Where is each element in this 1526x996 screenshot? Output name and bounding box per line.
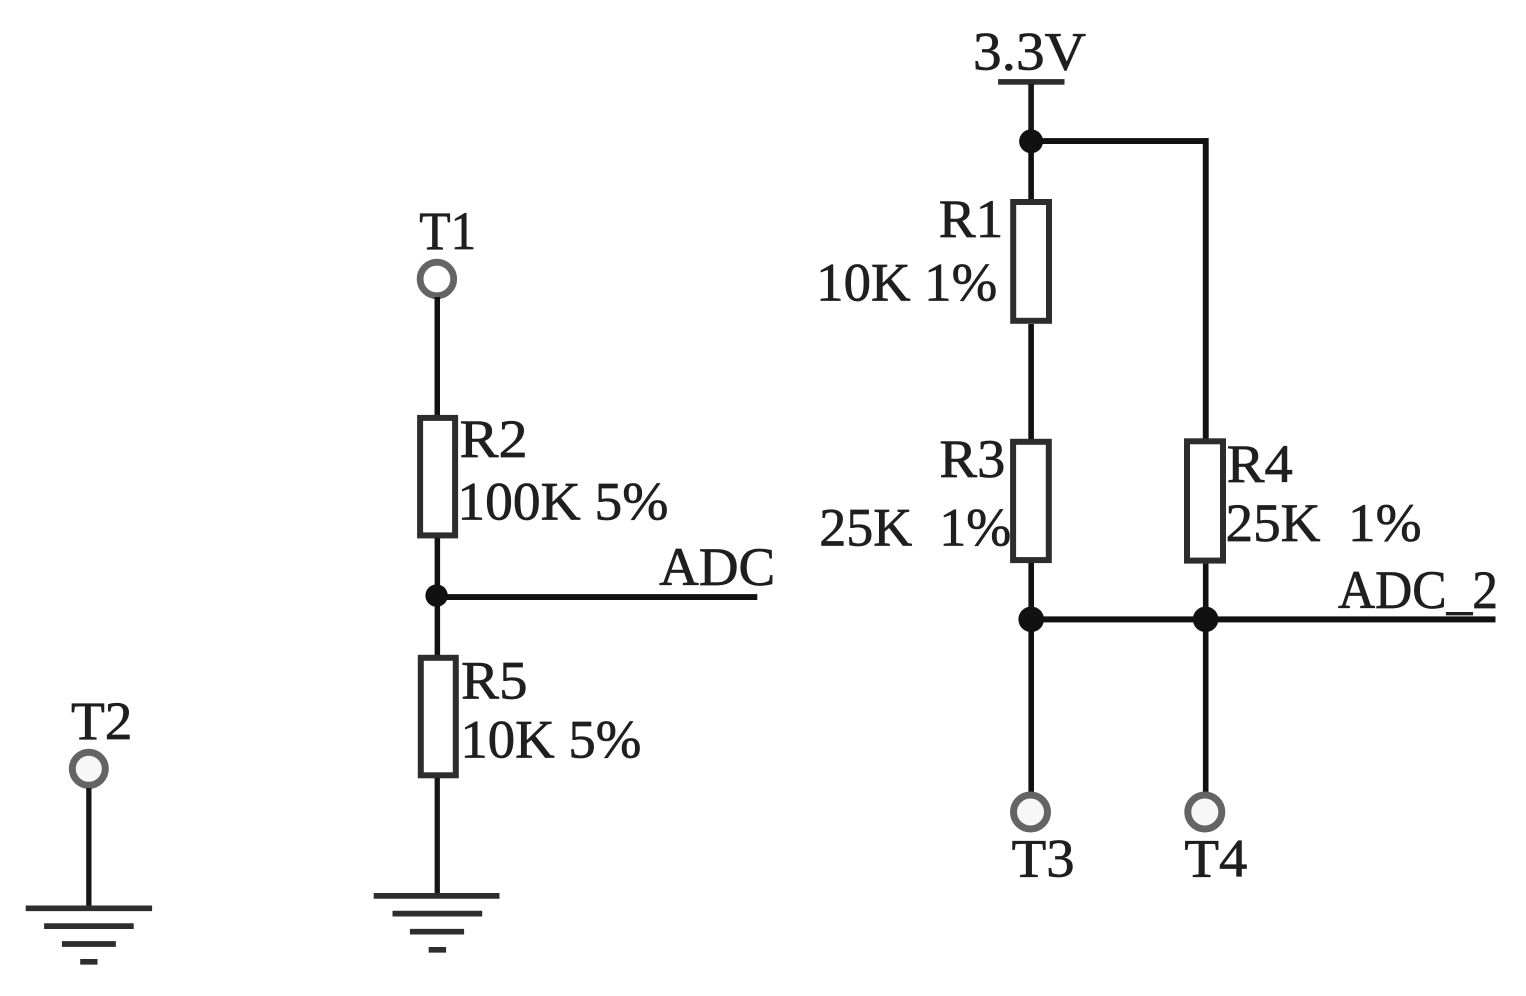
terminal T3 bbox=[1014, 795, 1048, 829]
ground (left) bbox=[26, 908, 152, 962]
svg-text:25K 1%: 25K 1% bbox=[1226, 493, 1422, 553]
svg-text:R3: R3 bbox=[939, 429, 1005, 489]
svg-text:3.3V: 3.3V bbox=[973, 21, 1086, 81]
wire R5 to ground bbox=[435, 778, 440, 896]
node (ADC_2 junction right) bbox=[1193, 607, 1219, 633]
wire T1 to R2 bbox=[435, 297, 441, 416]
svg-text:R5: R5 bbox=[461, 651, 527, 711]
wire T2 to ground bbox=[86, 788, 91, 908]
svg-text:25K 1%: 25K 1% bbox=[819, 498, 1011, 558]
wire node to R1 bbox=[1028, 141, 1034, 199]
wire node to right branch corner bbox=[1031, 138, 1209, 144]
resistor R1 bbox=[1013, 202, 1049, 321]
resistor R3 bbox=[1013, 442, 1049, 560]
wire R3 to T3 bbox=[1028, 563, 1034, 792]
svg-text:ADC_2: ADC_2 bbox=[1338, 560, 1498, 620]
terminal T4 bbox=[1188, 795, 1222, 829]
wire ADC_2 net bbox=[1031, 616, 1496, 622]
wire 3.3V to node bbox=[1028, 84, 1034, 141]
svg-text:R1: R1 bbox=[939, 189, 1004, 249]
power rail bar 3.3V bbox=[998, 79, 1064, 85]
terminal T1 bbox=[420, 262, 454, 296]
ground (middle) bbox=[374, 896, 500, 950]
node (3.3V junction) bbox=[1019, 129, 1043, 153]
wire ADC net bbox=[437, 594, 757, 600]
svg-text:T3: T3 bbox=[1012, 829, 1075, 889]
node (ADC_2 junction left) bbox=[1018, 607, 1044, 633]
resistor R5 bbox=[421, 658, 456, 776]
svg-text:T1: T1 bbox=[419, 201, 476, 261]
svg-text:100K 5%: 100K 5% bbox=[457, 472, 668, 532]
resistor R4 bbox=[1187, 441, 1223, 560]
terminal T2 bbox=[72, 752, 105, 785]
wire R4 to T4 bbox=[1203, 564, 1209, 792]
node (ADC junction) bbox=[425, 584, 447, 606]
wire right branch vertical (corner to R4) bbox=[1203, 138, 1209, 439]
svg-text:10K 1%: 10K 1% bbox=[816, 253, 997, 313]
svg-text:R2: R2 bbox=[460, 409, 528, 469]
svg-text:T2: T2 bbox=[71, 691, 133, 751]
wire R2 to R5 bbox=[435, 538, 441, 655]
svg-text:T4: T4 bbox=[1184, 829, 1247, 889]
svg-text:10K 5%: 10K 5% bbox=[460, 710, 641, 770]
resistor R2 bbox=[420, 418, 455, 536]
svg-text:R4: R4 bbox=[1227, 434, 1293, 494]
wire R1 to R3 bbox=[1028, 324, 1034, 439]
svg-text:ADC: ADC bbox=[659, 537, 775, 597]
